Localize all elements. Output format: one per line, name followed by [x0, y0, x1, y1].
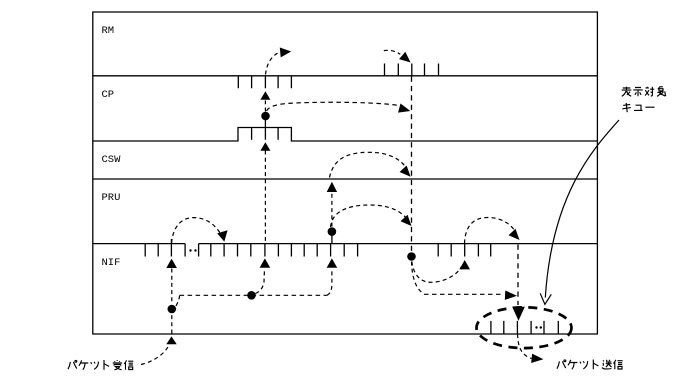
node dot at (265.5,116) [261, 112, 270, 121]
arrow down-right into x=411 at CSW/PRU line [400, 166, 411, 177]
wire: vertical dashed x=518 (NIF line to send queue) [517, 245, 519, 306]
arrow up at CSW/PRU line x=332 [327, 182, 337, 192]
wire: vertical dashed x=172 bottom (box bottom to dot) [171, 314, 173, 334]
arrowhead open V of pointer [540, 293, 551, 304]
CSW queue ticks (inside bump) [252, 128, 279, 140]
node dot at (251.5,295) [247, 291, 256, 300]
lane line CSW/PRU [93, 178, 598, 180]
arrow up at CP queue x=265 [260, 91, 270, 99]
wire: arc over NIF gap (172 to 223) [172, 218, 220, 243]
arrow right (packet send) [531, 354, 543, 363]
svg-text:NIF: NIF [102, 257, 121, 269]
arrow right at RM hook (291,51.5) [280, 48, 291, 58]
wire: from dot down-right corner to y=294 horizontal [412, 262, 425, 294]
text パケット受信 [68, 360, 133, 370]
wire: upper arc in CSW lane (332 to 410) [330, 152, 408, 177]
NIF queue ticks section 2 [199, 244, 358, 257]
send queue ellipse (dashed) [477, 307, 572, 348]
wire: corner y=295 up to x=332 vertical [327, 269, 332, 296]
wire: receive curve from label to box [141, 345, 169, 365]
wire: solid tick from dot down to NIF line [331, 234, 333, 244]
node dot at (331.9,231.6) [328, 227, 337, 236]
wire: right arc above NIF (465 to 518) [465, 218, 515, 244]
text 表示対象 [622, 87, 666, 97]
arrow down-right into x=411 mid PRU [401, 215, 412, 226]
wire: branch from dot up to x=265 vertical [256, 269, 265, 294]
wire: dashed below send queue through ellipse [518, 334, 532, 358]
arrow up at NIF line x=332 [327, 258, 338, 267]
lane line CP/CSW with CSW queue bump [93, 128, 598, 142]
lane line PRU/NIF (with gap) [93, 243, 598, 245]
wire: dashed x=265 CSW lane (below bump) [264, 151, 266, 244]
wire: horizontal dashed y=294 to send-queue drop [424, 293, 504, 295]
arrow right-down into x=411 CP lane [398, 104, 410, 113]
wire: RM hook down into RM queue x=411 [384, 50, 401, 54]
svg-text:RM: RM [102, 25, 115, 37]
wire: x=172 dashed from arrow base down [171, 269, 173, 305]
wire: vertical dashed x=411.5 (CP line down to dot) [411, 77, 413, 252]
node dot at (172,309) [168, 305, 177, 314]
arrow down-right at x=518 NIF line [509, 229, 520, 240]
RM queue ticks (above RM/CP line, right) [385, 64, 439, 76]
wire: solid from dot down to CSW bump top [264, 119, 266, 128]
arrow up at CSW line x=265 [260, 142, 270, 150]
arrow up at NIF line x=172 [166, 259, 177, 268]
svg-text:CSW: CSW [102, 154, 122, 166]
wire: lower arc in PRU lane (dot 332 to 410) [331, 205, 407, 227]
arrow into box bottom (packet receive) [166, 336, 176, 344]
node dot at (411.5,256.5) [407, 252, 416, 261]
arrow down at NIF line x=223 [217, 230, 227, 241]
svg-text:PRU: PRU [102, 192, 121, 204]
NIF queue gap dots [189, 249, 191, 251]
wire: dashed from dot up to CSW/PRU arrow [331, 194, 333, 227]
send queue ticks (above box bottom line) [491, 321, 558, 334]
arrow up at NIF line x=465 [459, 260, 470, 269]
arrow up at NIF line x=265 [260, 258, 271, 267]
text パケット送信 [557, 360, 623, 370]
send queue gap dots [535, 326, 537, 328]
NIF queue ticks section 1 [145, 239, 185, 257]
svg-text:CP: CP [102, 89, 115, 101]
NIF queue ticks section 3 [438, 244, 491, 257]
arrow big down into send queue [512, 307, 525, 321]
text キュー [622, 103, 654, 112]
lane line RM/CP [93, 75, 598, 77]
wire: dot up-right corner to y=295 horizontal [176, 295, 180, 306]
wire: CP lane long curve (dot to 410) [267, 102, 398, 111]
wire: dashed from dot up to CP arrow [264, 101, 266, 112]
outer box frame [93, 12, 598, 334]
arrow down-right into RM queue top [399, 52, 411, 63]
CP queue ticks (below RM/CP line) [238, 76, 291, 89]
arrow right at x=517 [505, 291, 517, 300]
wire: solid pointer curve from queue label [545, 120, 619, 298]
wire: RM hook up from CP queue x=265 [266, 53, 278, 74]
wire: horizontal dashed y=295 (left section) [180, 294, 327, 296]
wire: U-curve from dot to 465 arrow [412, 262, 462, 283]
